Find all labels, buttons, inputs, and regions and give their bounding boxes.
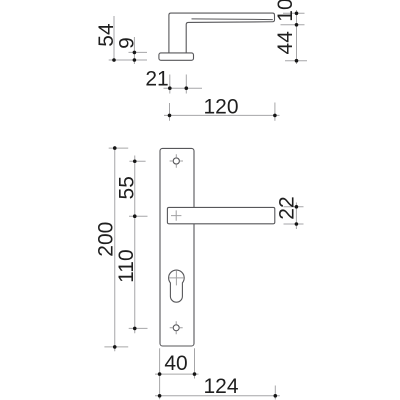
dimension 22 line xyxy=(295,203,297,230)
dim 110 bottom dot xyxy=(133,327,137,331)
dim 9 top tick xyxy=(129,51,148,53)
dim 54 bottom dot xyxy=(112,58,116,62)
rosette side view xyxy=(159,53,194,60)
dimension 21 line xyxy=(164,87,203,89)
dim 10 top dot xyxy=(295,12,299,16)
top screw ticks xyxy=(170,154,183,167)
dim 200 top tick xyxy=(109,147,129,149)
lever handle outline (neck + arm) xyxy=(169,13,275,53)
svg-text:124: 124 xyxy=(203,375,238,398)
svg-text:44: 44 xyxy=(274,31,297,55)
svg-text:55: 55 xyxy=(116,176,139,199)
dim 124 right dot xyxy=(274,394,278,398)
dim 124 right tick xyxy=(274,386,276,400)
top screw hole xyxy=(173,158,179,164)
dim 10 top tick xyxy=(283,12,305,14)
dimension 200 line xyxy=(114,146,116,351)
dim 40 left dot xyxy=(158,372,162,376)
dim 10/44 middle tick xyxy=(281,24,305,26)
dim 200 top dot xyxy=(113,146,117,150)
dim 120 right tick xyxy=(274,103,276,121)
spindle cross on lever neck xyxy=(171,210,181,220)
svg-text:40: 40 xyxy=(164,352,187,375)
bottom screw ticks xyxy=(170,321,183,334)
dim 44 bottom dot xyxy=(295,59,299,63)
dim 54/9 bottom tick xyxy=(109,59,147,61)
dim 40 right dot xyxy=(193,372,197,376)
bottom screw hole xyxy=(173,325,179,331)
dimension 9 line xyxy=(133,37,135,64)
svg-text:110: 110 xyxy=(115,249,138,282)
svg-text:21: 21 xyxy=(145,68,168,91)
dim 55/110 middle tick xyxy=(129,215,148,217)
dim 120 left tick xyxy=(169,103,171,121)
dim 22 top dot xyxy=(295,205,299,209)
dim 44 bottom tick xyxy=(285,60,307,62)
dimension 40 line xyxy=(155,373,199,375)
dim 120 right dot xyxy=(273,114,277,118)
dim 9 top dot xyxy=(133,51,137,55)
dim 40 right extension xyxy=(194,348,196,378)
dim 10/44 middle dot xyxy=(295,23,299,27)
svg-text:10: 10 xyxy=(274,0,297,22)
dim 124 left dot xyxy=(158,394,162,398)
dim 200 bottom tick xyxy=(104,346,128,348)
dimension 10/44 line xyxy=(296,10,298,64)
dim 22 bottom dot xyxy=(295,222,299,226)
dim 120 left dot xyxy=(168,114,172,118)
lever arm inner edge xyxy=(192,18,273,21)
lever front view xyxy=(167,207,274,223)
dim 22 bottom tick xyxy=(284,223,304,225)
dimension 120 line xyxy=(164,114,280,116)
svg-text:9: 9 xyxy=(116,37,139,49)
svg-text:120: 120 xyxy=(203,95,238,118)
dim 21 left dot xyxy=(168,86,172,90)
dim 40/124 left extension xyxy=(159,348,161,399)
svg-text:22: 22 xyxy=(276,196,299,219)
cylinder cross xyxy=(169,270,184,285)
dim 55 top dot xyxy=(133,159,137,163)
dim 55/110 middle dot xyxy=(133,214,137,218)
dim 22 top tick xyxy=(284,206,304,208)
dim 9 bottom dot xyxy=(133,58,137,62)
dim 55 top tick xyxy=(129,160,145,162)
dim 21 right dot xyxy=(185,86,189,90)
dim 110 bottom tick xyxy=(129,327,148,329)
dimension 55/110 line xyxy=(134,156,136,334)
dimension 54 line xyxy=(113,16,115,62)
dim 21 right tick xyxy=(185,75,187,94)
dim 200 bottom dot xyxy=(113,345,117,349)
euro cylinder keyhole xyxy=(169,270,185,302)
dimension 124 line xyxy=(155,395,280,397)
backplate xyxy=(160,148,194,346)
dim 21 left tick xyxy=(169,75,171,94)
